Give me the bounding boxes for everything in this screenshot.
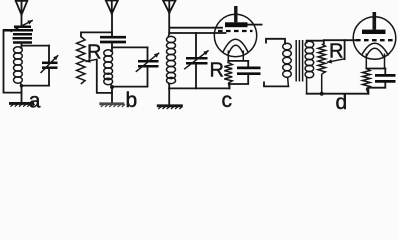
- wire capacitor bottom to rail (d): [368, 83, 385, 94]
- wire input terminal top (d): [266, 39, 285, 44]
- wire node to R (b): [81, 32, 112, 36]
- transformer secondary winding (d): [305, 41, 314, 94]
- ground (b): [99, 102, 124, 105]
- variable capacitor C4 (b): [138, 61, 159, 66]
- wire antenna lead (c): [168, 13, 170, 34]
- wire right branch drop (a): [48, 46, 50, 62]
- wire ground stem (b): [111, 87, 113, 103]
- wire rail riser (c): [229, 84, 231, 88]
- inductor L2 coil (b): [104, 50, 113, 86]
- triode V2 envelope (d): [353, 17, 396, 60]
- junction node (d): [320, 92, 324, 96]
- wire node to right branch (b): [112, 46, 148, 48]
- wiper arrow of potentiometer R (d): [327, 59, 345, 64]
- wire bottom rail (d): [307, 93, 369, 95]
- triode V1 envelope (c): [214, 14, 256, 56]
- arrow of variable capacitor C2 (a): [41, 55, 59, 73]
- wire ground stem (a): [21, 86, 23, 103]
- wire coil bottom to rail (c): [168, 84, 170, 88]
- wire plate lead up (c): [234, 6, 237, 22]
- variable capacitor C5 (c): [186, 58, 208, 63]
- arrow of variable capacitor C1 (a): [11, 20, 33, 32]
- wire plate lead right (c): [248, 24, 263, 26]
- wire left bus (a): [4, 30, 50, 92]
- wire capacitor bottom to R bottom (c): [230, 75, 249, 84]
- transformer core (d): [296, 40, 302, 82]
- resistor R potentiometer (d): [318, 44, 325, 94]
- wire varcap drop (c): [195, 33, 197, 57]
- antenna (b): [106, 1, 118, 14]
- junction node (a): [20, 84, 24, 88]
- wire bottom rail (c): [169, 87, 229, 89]
- antenna (c): [163, 1, 175, 13]
- capacitor C6 (c): [237, 68, 261, 74]
- wire filament rail (d): [366, 68, 385, 70]
- resistor cathode bias (d): [363, 69, 371, 94]
- resistor R grid-leak (c): [224, 63, 232, 89]
- wire upper to tube grid (c): [170, 27, 222, 29]
- wire C4 bottom to rail (b): [112, 67, 148, 86]
- wire plate lead up (d): [372, 12, 376, 30]
- svg-text:c: c: [222, 89, 233, 110]
- wire right branch drop (b): [147, 47, 149, 59]
- wire R lead (c): [227, 61, 229, 63]
- wire wiper vertical (d): [344, 40, 346, 59]
- svg-text:d: d: [336, 91, 348, 110]
- plate of V1 (c): [225, 22, 248, 27]
- wire cap to node (a): [21, 43, 23, 47]
- wire ground stem (c): [168, 88, 170, 104]
- wire input terminal bottom (d): [264, 82, 288, 86]
- wire C2 bottom (a): [48, 69, 50, 86]
- wire capacitor stem (d): [384, 69, 386, 74]
- transformer primary winding (d): [283, 43, 292, 86]
- grid of V2 dashed (d): [356, 39, 393, 41]
- arrow of variable capacitor C5 (c): [184, 50, 208, 69]
- wire lower node rail (c): [169, 32, 225, 34]
- antenna (a): [16, 1, 28, 15]
- svg-text:R: R: [210, 59, 224, 81]
- wire C3 to node (b): [111, 43, 113, 50]
- wire wiper to ground rail (b): [97, 60, 112, 93]
- wire top node to right branch (a): [22, 45, 50, 47]
- wire filament rail (c): [228, 60, 248, 62]
- wiper arrow of potentiometer R (b): [85, 59, 96, 63]
- filament of V1 (c): [223, 39, 248, 61]
- variable capacitor C1 multi-plate (a): [3, 27, 33, 43]
- wire bottom rail (a): [22, 85, 50, 87]
- wire grid node to tube (d): [324, 39, 356, 41]
- plate of V2 (d): [362, 30, 386, 34]
- wire antenna lead (a): [21, 15, 23, 27]
- arrow of variable capacitor C4 (b): [136, 53, 159, 72]
- grid of V1 dashed (c): [218, 30, 253, 32]
- filament of V2 (d): [362, 43, 389, 68]
- resistor R potentiometer (b): [77, 37, 85, 85]
- wire secondary top to R and grid node (d): [307, 41, 324, 44]
- variable capacitor C2 (a): [42, 63, 58, 68]
- junction node (b): [110, 85, 114, 89]
- capacitor C3 fixed 3-plate (b): [100, 37, 126, 42]
- inductor L1 coil (a): [14, 47, 23, 86]
- wire C5 bottom (c): [195, 64, 197, 88]
- inductor L3 coil (c): [167, 34, 176, 85]
- capacitor bypass (d): [375, 75, 396, 81]
- wire antenna lead (b): [111, 14, 113, 37]
- svg-text:a: a: [29, 89, 41, 110]
- wire capacitor stem top (c): [247, 61, 249, 67]
- svg-text:b: b: [126, 89, 138, 110]
- ground (c): [157, 104, 183, 107]
- ground (a): [9, 102, 34, 105]
